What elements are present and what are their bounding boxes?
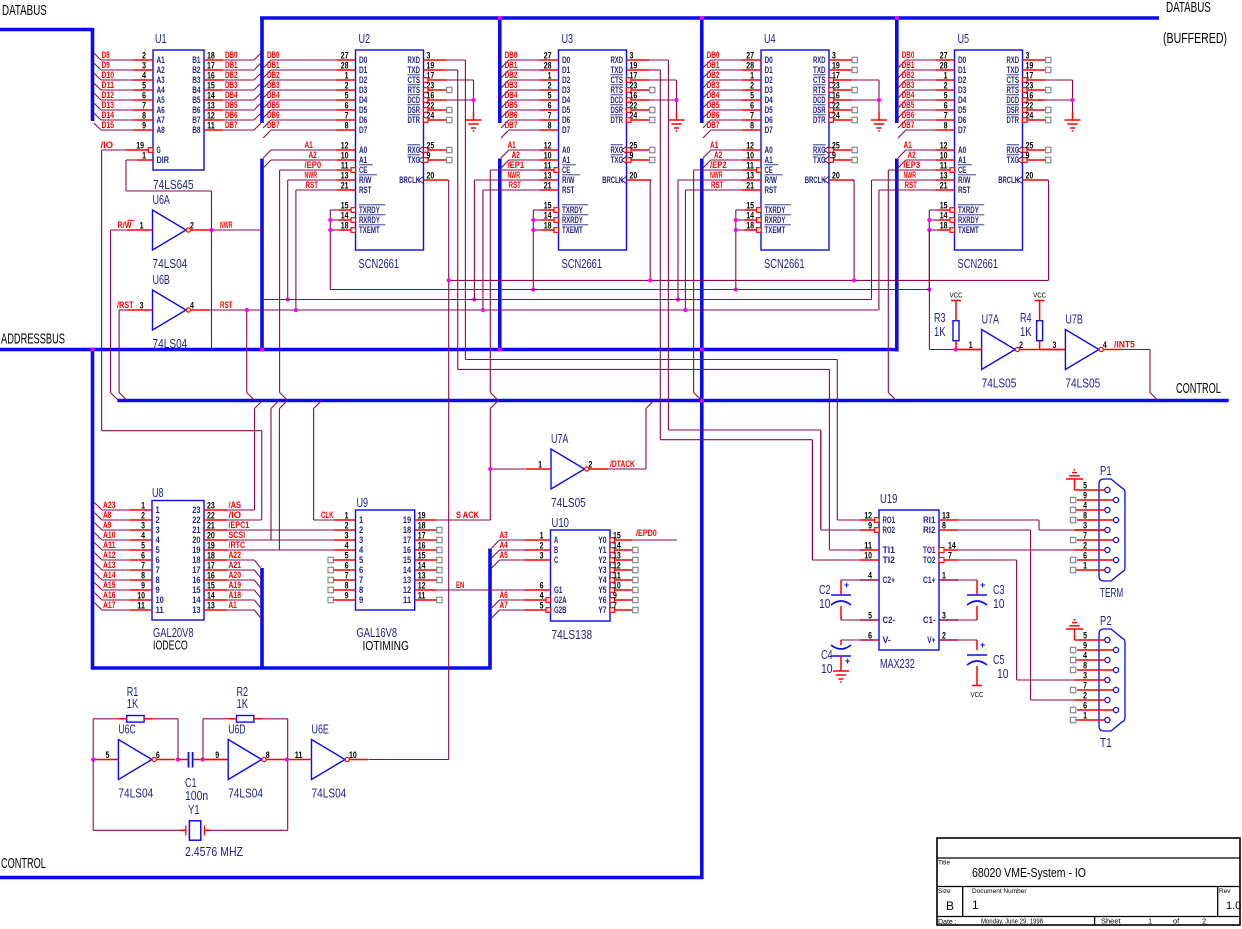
- svg-text:B: B: [946, 899, 954, 913]
- svg-text:1: 1: [359, 515, 363, 525]
- svg-text:17: 17: [207, 61, 215, 71]
- svg-text:U7A: U7A: [982, 313, 1000, 327]
- svg-text:S ACK: S ACK: [456, 510, 479, 520]
- svg-text:DB1: DB1: [505, 60, 518, 70]
- svg-text:A8: A8: [157, 125, 165, 135]
- svg-text:3: 3: [1083, 671, 1087, 681]
- svg-text:25: 25: [1026, 141, 1034, 151]
- svg-text:14: 14: [613, 541, 621, 551]
- svg-text:9: 9: [156, 585, 160, 595]
- svg-text:R/W: R/W: [958, 175, 971, 185]
- svg-text:18: 18: [418, 521, 426, 531]
- svg-text:C3: C3: [993, 583, 1005, 597]
- svg-text:3: 3: [832, 51, 836, 61]
- svg-text:A18: A18: [229, 590, 242, 600]
- svg-text:8: 8: [345, 121, 349, 131]
- svg-text:2: 2: [345, 81, 349, 91]
- svg-text:4: 4: [1083, 501, 1087, 511]
- svg-text:RTS: RTS: [611, 85, 624, 95]
- svg-text:R4: R4: [1020, 311, 1032, 325]
- svg-text:1: 1: [345, 71, 349, 81]
- svg-text:DB1: DB1: [707, 60, 720, 70]
- svg-text:CONTROL: CONTROL: [1, 855, 46, 872]
- svg-text:EN: EN: [456, 580, 464, 590]
- svg-text:DB1: DB1: [902, 60, 915, 70]
- svg-text:U2: U2: [359, 32, 371, 46]
- svg-text:A1: A1: [157, 55, 165, 65]
- svg-text:4: 4: [359, 545, 363, 555]
- svg-text:P2: P2: [1100, 614, 1112, 628]
- svg-text:/RTC: /RTC: [229, 540, 246, 550]
- svg-text:RXRDY: RXRDY: [562, 215, 583, 225]
- svg-text:13: 13: [940, 171, 948, 181]
- svg-text:2: 2: [1083, 691, 1087, 701]
- svg-text:3: 3: [359, 535, 363, 545]
- svg-text:4: 4: [142, 71, 146, 81]
- svg-text:15: 15: [207, 81, 215, 91]
- svg-text:T1: T1: [1100, 736, 1112, 750]
- svg-text:14: 14: [544, 211, 552, 221]
- svg-text:4: 4: [540, 591, 544, 601]
- svg-text:/EPC1: /EPC1: [229, 520, 250, 530]
- svg-text:CTS: CTS: [408, 75, 421, 85]
- svg-text:8: 8: [345, 581, 349, 591]
- svg-text:18: 18: [403, 525, 411, 535]
- svg-text:A23: A23: [103, 500, 116, 510]
- svg-text:RXRDY: RXRDY: [359, 215, 380, 225]
- svg-text:+: +: [844, 580, 849, 590]
- svg-text:RTS: RTS: [408, 85, 421, 95]
- svg-text:C2-: C2-: [883, 615, 896, 625]
- svg-text:17: 17: [418, 531, 426, 541]
- svg-text:A7: A7: [157, 115, 165, 125]
- svg-text:TXRDY: TXRDY: [359, 205, 380, 215]
- svg-text:A17: A17: [103, 600, 116, 610]
- svg-text:74LS04: 74LS04: [228, 787, 263, 801]
- svg-text:DB4: DB4: [707, 90, 720, 100]
- svg-text:14: 14: [207, 91, 215, 101]
- svg-text:C2: C2: [819, 583, 831, 597]
- svg-text:14: 14: [940, 211, 948, 221]
- svg-text:15: 15: [940, 201, 948, 211]
- svg-text:11: 11: [207, 121, 215, 131]
- svg-text:1K: 1K: [127, 697, 139, 711]
- svg-text:A5: A5: [157, 95, 165, 105]
- svg-text:15: 15: [613, 531, 621, 541]
- svg-text:13: 13: [942, 511, 950, 521]
- svg-text:16: 16: [418, 541, 426, 551]
- svg-text:DB5: DB5: [225, 100, 238, 110]
- svg-text:8: 8: [266, 750, 270, 760]
- svg-text:A13: A13: [103, 560, 116, 570]
- svg-text:RTS: RTS: [1007, 85, 1020, 95]
- svg-text:CE: CE: [562, 165, 570, 175]
- svg-text:/IO: /IO: [229, 510, 242, 520]
- svg-text:20: 20: [1026, 171, 1034, 181]
- svg-text:A5: A5: [500, 550, 508, 560]
- svg-text:74LS05: 74LS05: [551, 496, 586, 510]
- svg-text:14: 14: [207, 591, 215, 601]
- svg-text:23: 23: [207, 501, 215, 511]
- svg-text:12: 12: [207, 111, 215, 121]
- svg-text:Date :: Date :: [938, 919, 957, 926]
- svg-text:D7: D7: [359, 125, 367, 135]
- svg-text:RXD: RXD: [813, 55, 826, 65]
- svg-text:6: 6: [750, 101, 754, 111]
- svg-text:RST: RST: [711, 180, 724, 190]
- svg-text:D2: D2: [958, 75, 966, 85]
- svg-text:R/W: R/W: [118, 220, 132, 230]
- svg-text:U6E: U6E: [312, 723, 329, 737]
- svg-text:5: 5: [1083, 481, 1087, 491]
- svg-text:A16: A16: [103, 590, 116, 600]
- svg-text:9: 9: [142, 121, 146, 131]
- svg-text:DTR: DTR: [1007, 115, 1020, 125]
- svg-text:DB3: DB3: [267, 80, 280, 90]
- svg-text:8: 8: [944, 121, 948, 131]
- svg-text:SCN2661: SCN2661: [958, 257, 999, 271]
- svg-text:P1: P1: [1100, 464, 1112, 478]
- svg-text:A4: A4: [500, 540, 508, 550]
- svg-text:A6: A6: [500, 590, 508, 600]
- svg-text:14: 14: [192, 595, 200, 605]
- svg-text:B: B: [554, 545, 559, 555]
- svg-text:DSR: DSR: [1007, 105, 1020, 115]
- svg-text:7: 7: [750, 111, 754, 121]
- svg-text:21: 21: [940, 181, 948, 191]
- svg-text:10: 10: [997, 667, 1009, 681]
- svg-text:VCC: VCC: [950, 293, 963, 300]
- svg-text:D10: D10: [102, 70, 115, 80]
- svg-text:D1: D1: [359, 65, 367, 75]
- svg-text:ADDRESSBUS: ADDRESSBUS: [1, 331, 65, 348]
- svg-text:DB5: DB5: [267, 100, 280, 110]
- svg-text:2: 2: [750, 81, 754, 91]
- svg-text:/INT5: /INT5: [1114, 340, 1135, 350]
- svg-text:1: 1: [972, 898, 979, 912]
- svg-text:TXEMT: TXEMT: [359, 225, 380, 235]
- svg-text:CTS: CTS: [813, 75, 826, 85]
- svg-text:2: 2: [1202, 917, 1206, 926]
- svg-text:15: 15: [746, 201, 754, 211]
- svg-text:+: +: [980, 580, 985, 590]
- svg-text:10: 10: [993, 597, 1005, 611]
- svg-text:9: 9: [868, 521, 872, 531]
- svg-text:11: 11: [295, 750, 303, 760]
- svg-text:D3: D3: [562, 85, 570, 95]
- svg-text:D6: D6: [958, 115, 966, 125]
- svg-text:TXEMT: TXEMT: [958, 225, 979, 235]
- svg-text:2: 2: [142, 51, 146, 61]
- svg-text:C1-: C1-: [923, 615, 936, 625]
- svg-text:1: 1: [969, 340, 973, 350]
- svg-text:20: 20: [832, 171, 840, 181]
- svg-text:19: 19: [832, 61, 840, 71]
- svg-text:18: 18: [746, 221, 754, 231]
- svg-text:DB2: DB2: [225, 70, 238, 80]
- svg-text:1: 1: [548, 71, 552, 81]
- svg-text:1: 1: [1148, 917, 1152, 926]
- svg-text:DB3: DB3: [505, 80, 518, 90]
- svg-text:19: 19: [1026, 61, 1034, 71]
- svg-text:5: 5: [548, 91, 552, 101]
- svg-text:28: 28: [544, 61, 552, 71]
- svg-text:TXEMT: TXEMT: [562, 225, 583, 235]
- svg-text:DB4: DB4: [267, 90, 280, 100]
- svg-text:12: 12: [746, 141, 754, 151]
- svg-text:/AS: /AS: [229, 500, 242, 510]
- svg-text:Sheet: Sheet: [1101, 917, 1122, 926]
- svg-text:14: 14: [746, 211, 754, 221]
- svg-text:NWR: NWR: [305, 170, 318, 180]
- svg-text:19: 19: [136, 141, 144, 151]
- svg-text:5: 5: [106, 750, 110, 760]
- svg-text:9: 9: [613, 591, 617, 601]
- svg-text:8: 8: [142, 111, 146, 121]
- svg-text:27: 27: [940, 51, 948, 61]
- svg-text:A9: A9: [103, 520, 111, 530]
- svg-text:U1: U1: [155, 32, 167, 46]
- svg-text:DB0: DB0: [225, 50, 238, 60]
- svg-text:DSR: DSR: [813, 105, 826, 115]
- svg-text:3: 3: [1026, 51, 1030, 61]
- svg-text:11: 11: [746, 161, 754, 171]
- svg-text:11: 11: [418, 591, 426, 601]
- svg-text:8: 8: [156, 575, 160, 585]
- svg-text:U7B: U7B: [1065, 313, 1082, 327]
- svg-text:15: 15: [192, 585, 200, 595]
- svg-text:A11: A11: [103, 540, 116, 550]
- svg-text:21: 21: [207, 521, 215, 531]
- svg-text:12: 12: [341, 141, 349, 151]
- svg-text:16: 16: [207, 71, 215, 81]
- svg-text:5: 5: [1083, 631, 1087, 641]
- svg-text:A2: A2: [908, 150, 916, 160]
- svg-text:28: 28: [940, 61, 948, 71]
- svg-text:7: 7: [345, 111, 349, 121]
- svg-text:D3: D3: [958, 85, 966, 95]
- svg-text:DB7: DB7: [707, 120, 720, 130]
- svg-text:12: 12: [418, 581, 426, 591]
- svg-text:MAX232: MAX232: [880, 657, 915, 671]
- svg-text:DB6: DB6: [505, 110, 518, 120]
- svg-text:TXEMT: TXEMT: [765, 225, 786, 235]
- svg-text:20: 20: [207, 531, 215, 541]
- svg-text:74LS138: 74LS138: [552, 628, 593, 642]
- svg-text:D15: D15: [102, 120, 115, 130]
- svg-text:TXD: TXD: [1007, 65, 1020, 75]
- svg-text:11: 11: [864, 541, 872, 551]
- svg-text:1: 1: [156, 505, 160, 515]
- svg-text:NWR: NWR: [710, 170, 723, 180]
- svg-text:V+: V+: [927, 635, 935, 645]
- svg-text:A2: A2: [714, 150, 722, 160]
- svg-text:2: 2: [1019, 340, 1023, 350]
- svg-text:19: 19: [418, 511, 426, 521]
- svg-text:19: 19: [630, 61, 638, 71]
- svg-text:18: 18: [544, 221, 552, 231]
- svg-text:19: 19: [207, 541, 215, 551]
- svg-text:BRCLK: BRCLK: [998, 175, 1019, 185]
- svg-text:TO2: TO2: [923, 555, 936, 565]
- svg-text:RXRDY: RXRDY: [765, 215, 786, 225]
- svg-text:DTR: DTR: [408, 115, 421, 125]
- svg-text:6: 6: [345, 561, 349, 571]
- svg-text:3: 3: [345, 531, 349, 541]
- svg-text:DB4: DB4: [902, 90, 915, 100]
- svg-text:4: 4: [156, 535, 160, 545]
- svg-text:B6: B6: [192, 105, 200, 115]
- svg-text:9: 9: [1083, 641, 1087, 651]
- svg-text:R/W: R/W: [562, 175, 575, 185]
- svg-text:18: 18: [207, 551, 215, 561]
- svg-text:GAL16V8: GAL16V8: [357, 626, 398, 640]
- svg-text:B2: B2: [192, 65, 200, 75]
- svg-text:12: 12: [403, 585, 411, 595]
- svg-text:7: 7: [948, 551, 952, 561]
- svg-text:11: 11: [940, 161, 948, 171]
- svg-text:DTR: DTR: [611, 115, 624, 125]
- svg-text:74LS05: 74LS05: [982, 377, 1017, 391]
- svg-text:D5: D5: [765, 105, 773, 115]
- svg-text:11: 11: [613, 571, 621, 581]
- svg-text:DB2: DB2: [267, 70, 280, 80]
- svg-text:B7: B7: [192, 115, 200, 125]
- svg-text:21: 21: [544, 181, 552, 191]
- svg-text:11: 11: [544, 161, 552, 171]
- svg-text:CE: CE: [958, 165, 966, 175]
- svg-text:3: 3: [156, 525, 160, 535]
- svg-text:12: 12: [544, 141, 552, 151]
- svg-text:1: 1: [345, 511, 349, 521]
- svg-text:10: 10: [341, 151, 349, 161]
- svg-text:A22: A22: [229, 550, 242, 560]
- svg-text:5: 5: [944, 91, 948, 101]
- svg-text:RXD: RXD: [408, 55, 421, 65]
- svg-text:3: 3: [630, 51, 634, 61]
- svg-text:DCD: DCD: [813, 95, 826, 105]
- svg-text:A0: A0: [562, 145, 570, 155]
- svg-text:D7: D7: [562, 125, 570, 135]
- svg-text:DB0: DB0: [267, 50, 280, 60]
- svg-text:6: 6: [359, 565, 363, 575]
- svg-text:Monday, June 29, 1998: Monday, June 29, 1998: [981, 917, 1043, 926]
- svg-text:6: 6: [1083, 701, 1087, 711]
- svg-text:13: 13: [613, 551, 621, 561]
- svg-text:14: 14: [403, 565, 411, 575]
- svg-text:5: 5: [141, 541, 145, 551]
- svg-text:Y5: Y5: [598, 585, 606, 595]
- svg-text:1: 1: [538, 460, 542, 470]
- svg-text:13: 13: [207, 601, 215, 611]
- svg-text:RST: RST: [220, 300, 233, 310]
- svg-text:C2+: C2+: [883, 575, 896, 585]
- svg-text:DB1: DB1: [225, 60, 238, 70]
- svg-text:TXD: TXD: [611, 65, 624, 75]
- svg-text:13: 13: [746, 171, 754, 181]
- svg-text:A6: A6: [157, 105, 165, 115]
- svg-text:5: 5: [345, 91, 349, 101]
- svg-text:A2: A2: [309, 150, 317, 160]
- svg-text:VCC: VCC: [971, 692, 984, 699]
- svg-text:+: +: [980, 640, 985, 650]
- svg-text:2: 2: [141, 511, 145, 521]
- svg-text:A: A: [554, 535, 559, 545]
- svg-text:SCN2661: SCN2661: [764, 257, 805, 271]
- svg-text:D4: D4: [359, 95, 367, 105]
- svg-text:DB7: DB7: [267, 120, 280, 130]
- svg-text:A3: A3: [157, 75, 165, 85]
- svg-text:1: 1: [942, 571, 946, 581]
- svg-text:/IO: /IO: [101, 140, 114, 150]
- svg-text:DB6: DB6: [225, 110, 238, 120]
- svg-text:NWR: NWR: [220, 220, 233, 230]
- svg-text:A0: A0: [359, 145, 367, 155]
- svg-text:A1: A1: [904, 140, 912, 150]
- svg-text:D1: D1: [765, 65, 773, 75]
- svg-text:13: 13: [341, 171, 349, 181]
- svg-text:1: 1: [540, 531, 544, 541]
- svg-text:R/W: R/W: [359, 175, 372, 185]
- svg-text:9: 9: [359, 595, 363, 605]
- svg-text:R/W: R/W: [765, 175, 778, 185]
- svg-text:27: 27: [544, 51, 552, 61]
- svg-text:2: 2: [345, 521, 349, 531]
- svg-text:18: 18: [192, 555, 200, 565]
- svg-text:6: 6: [141, 551, 145, 561]
- svg-text:Y3: Y3: [598, 565, 606, 575]
- svg-text:D4: D4: [765, 95, 773, 105]
- svg-text:25: 25: [427, 141, 435, 151]
- svg-text:22: 22: [207, 511, 215, 521]
- svg-text:DB0: DB0: [505, 50, 518, 60]
- svg-text:7: 7: [1083, 531, 1087, 541]
- svg-text:74LS04: 74LS04: [312, 787, 347, 801]
- svg-text:A2: A2: [512, 150, 520, 160]
- svg-text:8: 8: [1083, 661, 1087, 671]
- svg-text:6: 6: [156, 555, 160, 565]
- svg-text:A1: A1: [229, 600, 237, 610]
- svg-text:5: 5: [142, 81, 146, 91]
- svg-text:1: 1: [750, 71, 754, 81]
- svg-text:D7: D7: [765, 125, 773, 135]
- svg-text:3: 3: [427, 51, 431, 61]
- svg-text:G1: G1: [554, 585, 562, 595]
- svg-text:R3: R3: [934, 311, 946, 325]
- svg-text:U5: U5: [958, 32, 970, 46]
- svg-text:7: 7: [345, 571, 349, 581]
- svg-text:RST: RST: [958, 185, 971, 195]
- svg-text:DB4: DB4: [225, 90, 238, 100]
- svg-text:2: 2: [548, 81, 552, 91]
- svg-text:12: 12: [940, 141, 948, 151]
- svg-text:NWR: NWR: [508, 170, 521, 180]
- svg-text:8: 8: [548, 121, 552, 131]
- svg-text:4: 4: [1083, 651, 1087, 661]
- svg-text:Y4: Y4: [598, 575, 606, 585]
- svg-text:DB2: DB2: [902, 70, 915, 80]
- svg-text:V-: V-: [883, 635, 891, 645]
- svg-text:BRCLK: BRCLK: [399, 175, 420, 185]
- svg-text:CTS: CTS: [611, 75, 624, 85]
- svg-text:4: 4: [1103, 340, 1107, 350]
- svg-text:DB4: DB4: [505, 90, 518, 100]
- svg-text:10: 10: [156, 595, 164, 605]
- svg-text:B3: B3: [192, 75, 200, 85]
- svg-text:TXRDY: TXRDY: [765, 205, 786, 215]
- svg-text:5: 5: [750, 91, 754, 101]
- svg-text:11: 11: [341, 161, 349, 171]
